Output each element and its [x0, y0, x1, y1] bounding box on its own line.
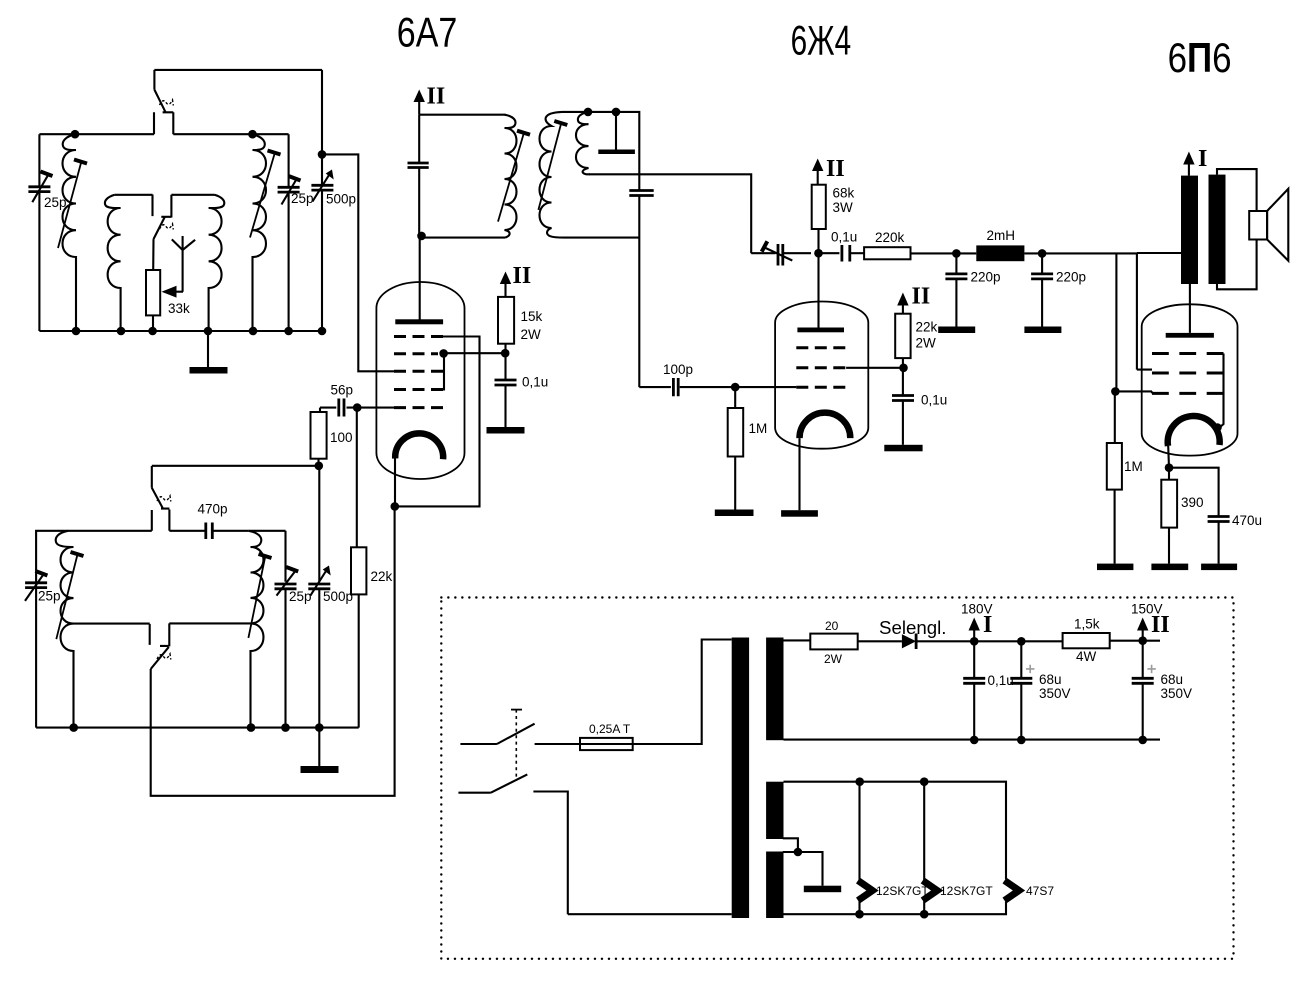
wire coupling top right	[171, 194, 214, 196]
grid 2 row	[394, 352, 438, 355]
tuning slug L4	[250, 151, 281, 238]
cathode 6P6	[1168, 416, 1220, 446]
node bus junctions	[72, 327, 327, 336]
svg-text:68k: 68k	[833, 186, 855, 201]
label 68u 350V	[1161, 672, 1193, 701]
output transformer secondary	[1209, 175, 1226, 284]
wire heater bus bottom	[784, 902, 1007, 915]
wire detector to grid cap	[589, 174, 751, 253]
node grid 6P6	[1111, 387, 1120, 396]
node primary bottom	[417, 232, 426, 241]
node suppressor cathode	[1213, 423, 1222, 432]
capacitor C15 470u	[1169, 468, 1230, 564]
wire osc tap 2	[169, 622, 250, 624]
svg-text:180V: 180V	[961, 602, 993, 617]
heater string 2	[923, 782, 938, 915]
plate lead	[817, 253, 819, 329]
svg-text:6Ж4: 6Ж4	[791, 17, 852, 64]
node screen junction	[899, 364, 908, 373]
resistor R2 22k	[351, 408, 366, 728]
capacitor C12 0.1u	[892, 396, 914, 445]
resistor R12 1.5k	[1063, 633, 1110, 648]
wire grid bus y134	[39, 133, 288, 135]
ground cathode	[781, 510, 818, 517]
label 1,5k 4W	[1074, 617, 1100, 665]
speaker	[1249, 189, 1288, 261]
power arrow I 180V	[969, 618, 980, 642]
wire screen to 22k	[846, 367, 904, 369]
potentiometer R1 33k	[146, 270, 160, 331]
choke 2mH	[976, 245, 1024, 261]
svg-text:68u: 68u	[1161, 672, 1184, 687]
inductor L6 osc coil 2	[249, 531, 264, 728]
capacitor C8 56p	[320, 399, 357, 417]
svg-text:350V: 350V	[1039, 686, 1071, 701]
switch S3 pole 2	[458, 774, 567, 914]
svg-text:220p: 220p	[1056, 270, 1086, 285]
ground bus	[39, 330, 322, 332]
wire control grid 6P6	[1115, 391, 1152, 393]
ground 220p1	[938, 327, 975, 334]
wiper arrow 33k	[162, 286, 184, 298]
svg-text:0,1u: 0,1u	[921, 393, 947, 408]
tuning slug primary	[498, 131, 530, 222]
svg-text:0,1u: 0,1u	[522, 375, 548, 390]
resistor R8 22k	[895, 314, 910, 358]
wire 500p branch	[318, 466, 320, 728]
svg-text:25p: 25p	[289, 589, 312, 604]
grid 2 wire to 15k	[444, 352, 506, 354]
grid 3 row control	[1152, 392, 1224, 395]
resistor R4 15k	[498, 297, 514, 380]
svg-text:220k: 220k	[875, 230, 905, 245]
svg-text:220p: 220p	[971, 270, 1001, 285]
resistor R3 100	[311, 408, 327, 466]
svg-text:20: 20	[825, 619, 839, 633]
wire primary bottom	[422, 237, 506, 239]
wire 500p branch	[321, 70, 323, 331]
tube V2 6Zh4 envelope	[775, 302, 868, 449]
grid 1 row	[796, 346, 846, 349]
capacitor C18 68u electrolytic	[1132, 641, 1156, 741]
svg-text:2W: 2W	[521, 327, 542, 342]
tube V3 6P6 envelope	[1142, 304, 1238, 455]
wire primary left	[419, 115, 505, 236]
trimmer capacitor C6 25p	[275, 567, 299, 596]
node cathode 6P6	[1165, 463, 1174, 472]
grid 2 row screen	[1152, 372, 1224, 375]
fuse F1 0.25A	[575, 738, 637, 750]
plate bar	[1166, 333, 1214, 338]
plate lead	[419, 236, 421, 322]
resistor R11 20	[810, 634, 857, 650]
transformer T1 heater winding a	[766, 782, 783, 839]
inductor detector coupling	[576, 112, 590, 174]
wire diode to rail	[916, 640, 1063, 642]
node ground 1	[584, 108, 593, 117]
wire secondary bottom	[564, 237, 639, 239]
node 150V	[1138, 636, 1147, 645]
node 2mH out	[1038, 249, 1047, 258]
tuning slug secondary	[538, 121, 567, 210]
capacitor C10 100p	[639, 378, 735, 396]
wire 68k bottom	[817, 229, 819, 253]
wire 25p branch	[284, 531, 286, 728]
heater string 3	[1005, 881, 1020, 901]
resistor R9 1M grid leak	[1107, 391, 1122, 563]
svg-text:47S7: 47S7	[1026, 884, 1054, 898]
svg-text:II: II	[826, 156, 845, 182]
grid 3 row control	[796, 386, 846, 389]
svg-text:6П6: 6П6	[1168, 34, 1232, 81]
svg-text:2W: 2W	[824, 652, 843, 666]
svg-text:II: II	[513, 263, 532, 289]
cathode	[395, 433, 443, 459]
node 68u1 top	[1017, 637, 1026, 646]
ground heater tap	[804, 886, 841, 893]
dotted enclosure	[441, 598, 1233, 959]
cathode lead	[798, 438, 800, 510]
wire left vertical	[38, 134, 40, 331]
svg-text:II: II	[427, 84, 446, 110]
svg-text:150V: 150V	[1131, 602, 1163, 617]
suppressor to cathode tie	[1219, 354, 1224, 429]
wire osc grid	[152, 465, 319, 467]
resistor R5 1M	[728, 387, 744, 509]
antenna	[172, 236, 195, 292]
wire 22k bottom	[902, 358, 904, 395]
svg-text:470p: 470p	[198, 502, 228, 517]
capacitor C11 0.1u	[819, 245, 865, 262]
label 20 2W	[824, 619, 843, 666]
band switch S1a	[154, 70, 173, 134]
svg-text:II: II	[912, 284, 931, 310]
ground IFT	[598, 112, 635, 154]
svg-text:500p: 500p	[326, 192, 356, 207]
inductor L3 coupling coil right	[209, 195, 225, 331]
wire fuse to transformer	[637, 640, 732, 745]
wire secondary top	[562, 112, 639, 191]
trimmer capacitor C2 25p	[278, 176, 301, 205]
variable capacitor C7 500p	[308, 566, 330, 596]
svg-text:I: I	[1198, 146, 1207, 172]
node grid 2	[439, 349, 448, 358]
wire 20 to diode	[858, 640, 902, 642]
svg-text:1,5k: 1,5k	[1074, 617, 1100, 632]
wire secondary to speaker	[1217, 169, 1257, 289]
tube V1 6A7 envelope	[376, 282, 464, 479]
svg-text:3W: 3W	[833, 200, 854, 215]
svg-text:350V: 350V	[1161, 686, 1193, 701]
svg-text:12SK7GT: 12SK7GT	[876, 884, 929, 898]
node plate junction	[814, 249, 823, 258]
grid 2 row screen	[796, 366, 846, 369]
wire coupling top left	[115, 194, 153, 196]
node coil L4 top	[248, 130, 257, 139]
ground 470u	[1201, 564, 1237, 571]
plate lead	[1189, 284, 1191, 333]
svg-text:25p: 25p	[38, 589, 61, 604]
trimmer capacitor feedback	[751, 241, 811, 265]
svg-text:500p: 500p	[323, 589, 353, 604]
inductor L2 coupling coil left	[105, 195, 121, 331]
svg-text:4W: 4W	[1076, 649, 1097, 664]
svg-text:22k: 22k	[371, 569, 393, 584]
tuning slug L5	[56, 552, 83, 639]
wire osc tank top	[36, 531, 152, 728]
grid 2-4 tie	[443, 354, 444, 390]
svg-text:15k: 15k	[521, 309, 543, 324]
grid 5 row	[394, 406, 443, 409]
grid 1 wire to cathode	[395, 337, 480, 507]
label 68u 350V	[1039, 672, 1071, 701]
tuning slug L6	[248, 554, 271, 638]
power arrow II plate supply	[414, 90, 425, 115]
transformer T1 HV secondary	[766, 638, 783, 741]
inductor L5 osc coil	[56, 531, 74, 728]
svg-text:6A7: 6A7	[397, 9, 458, 56]
node heater top dots	[855, 777, 928, 786]
wire osc top right	[249, 530, 286, 532]
ground 390	[1151, 564, 1188, 571]
band switch S1b	[153, 195, 174, 271]
svg-text:100p: 100p	[663, 362, 693, 377]
svg-text:56p: 56p	[331, 383, 354, 398]
svg-text:100: 100	[330, 430, 353, 445]
power arrow II for 68k	[812, 159, 823, 185]
power arrow II 150V	[1137, 618, 1148, 641]
node 100 bottom	[315, 462, 324, 471]
ground	[301, 728, 339, 773]
node 100p	[731, 383, 740, 392]
svg-text:68u: 68u	[1039, 672, 1062, 687]
wire HV top	[784, 639, 811, 641]
tuning slug L1	[58, 160, 87, 249]
capacitor IFT primary tuning	[408, 163, 429, 168]
node 220p1	[952, 249, 961, 258]
output transformer primary	[1181, 176, 1198, 284]
svg-text:390: 390	[1181, 495, 1204, 510]
svg-text:1M: 1M	[1124, 459, 1143, 474]
resistor R6 68k	[812, 185, 826, 229]
node coil1 top	[71, 130, 80, 139]
node bus junctions osc	[69, 723, 323, 732]
wire HV return rail	[784, 739, 1161, 741]
svg-text:0,25A T: 0,25A T	[589, 722, 631, 736]
label 22k 2W	[916, 320, 938, 351]
capacitor C5 470p	[206, 523, 249, 540]
ground 220p2	[1024, 327, 1061, 334]
capacitor C17 68u electrolytic	[1010, 641, 1034, 740]
ground bus osc	[36, 727, 359, 729]
capacitor C13 220p	[945, 253, 967, 326]
resistor R10 390	[1161, 468, 1177, 564]
svg-text:Selengl.: Selengl.	[879, 618, 947, 638]
ground	[190, 331, 228, 374]
transformer T1 primary	[732, 638, 749, 919]
wire 220k to 2mH	[911, 252, 977, 254]
heater string 1	[858, 782, 873, 915]
svg-text:33k: 33k	[168, 301, 190, 316]
trimmer capacitor C4 25p	[25, 571, 47, 601]
wire switch to transformer bottom	[568, 913, 732, 915]
svg-text:2mH: 2mH	[987, 228, 1016, 243]
svg-text:0,1u: 0,1u	[988, 673, 1014, 688]
wire control grid	[735, 386, 796, 388]
svg-text:22k: 22k	[916, 320, 938, 335]
plate bar	[797, 328, 844, 333]
wire top loop	[154, 69, 322, 71]
wire 25p branch	[288, 134, 290, 331]
band switch S2a	[152, 466, 171, 531]
ground	[487, 427, 525, 434]
capacitor IFT secondary tuning	[629, 191, 653, 388]
transformer tap link	[783, 838, 823, 885]
node 500p top	[318, 150, 327, 159]
power arrow I plate supply	[1183, 152, 1194, 176]
svg-text:12SK7GT: 12SK7GT	[940, 884, 993, 898]
capacitor C16 0.1u	[963, 641, 985, 740]
grid 1 row suppressor	[1152, 352, 1224, 355]
wire osc top to 470p	[169, 530, 205, 532]
transformer T1 heater winding b	[766, 852, 783, 919]
capacitor C14 220p	[1031, 253, 1053, 326]
cathode lead	[394, 459, 396, 507]
inductor L1 antenna coil	[63, 134, 77, 331]
grid 1 row	[394, 335, 443, 338]
cathode	[800, 413, 851, 438]
wire 1.5k to 150V	[1110, 640, 1160, 642]
node 15k bottom	[501, 349, 510, 358]
label 68k 3W	[833, 186, 855, 216]
resistor R7 220k	[864, 247, 910, 259]
inductor L4 secondary coil	[253, 134, 267, 331]
wire heater bus top	[784, 782, 1007, 880]
node ground 2	[612, 108, 621, 117]
switch S3 pole 1	[460, 724, 580, 744]
svg-text:470u: 470u	[1232, 513, 1262, 528]
inductor IFT1 secondary	[540, 112, 565, 238]
variable capacitor C3 500p	[311, 170, 333, 202]
ground 1M	[715, 510, 754, 517]
ground 1M 6P6	[1097, 564, 1133, 571]
node cathode	[391, 502, 400, 511]
node rail dots	[970, 736, 1147, 745]
rectifier D1 selenium	[902, 634, 916, 650]
wire osc tap	[74, 623, 150, 625]
node heater bottom dots	[855, 910, 928, 919]
svg-text:0,1u: 0,1u	[831, 230, 857, 245]
svg-text:2W: 2W	[916, 336, 937, 351]
power arrow II for 15k	[500, 272, 511, 297]
wire AF to output stage	[1024, 253, 1181, 391]
power arrow II for 22k	[897, 293, 908, 314]
grid 3 row	[394, 370, 443, 373]
cathode lead 6P6	[1167, 446, 1170, 468]
wire to mixer grid	[322, 154, 394, 371]
plate bar	[395, 319, 443, 324]
trimmer capacitor C1 25p	[28, 172, 52, 203]
inductor IFT1 primary	[505, 115, 517, 238]
svg-text:25p: 25p	[291, 191, 314, 206]
ground screen bypass	[884, 445, 922, 452]
node tap	[794, 848, 803, 857]
grid 4 row	[394, 388, 443, 391]
wire 56p to grid5	[357, 407, 394, 409]
wire cathode return	[151, 506, 395, 795]
svg-text:1M: 1M	[749, 421, 768, 436]
node 180V	[970, 637, 979, 646]
label 15k 2W	[521, 309, 543, 342]
capacitor C9 0.1u	[495, 380, 517, 427]
node 56p	[353, 403, 362, 412]
band switch S2b	[150, 623, 171, 669]
switch link	[511, 710, 522, 779]
